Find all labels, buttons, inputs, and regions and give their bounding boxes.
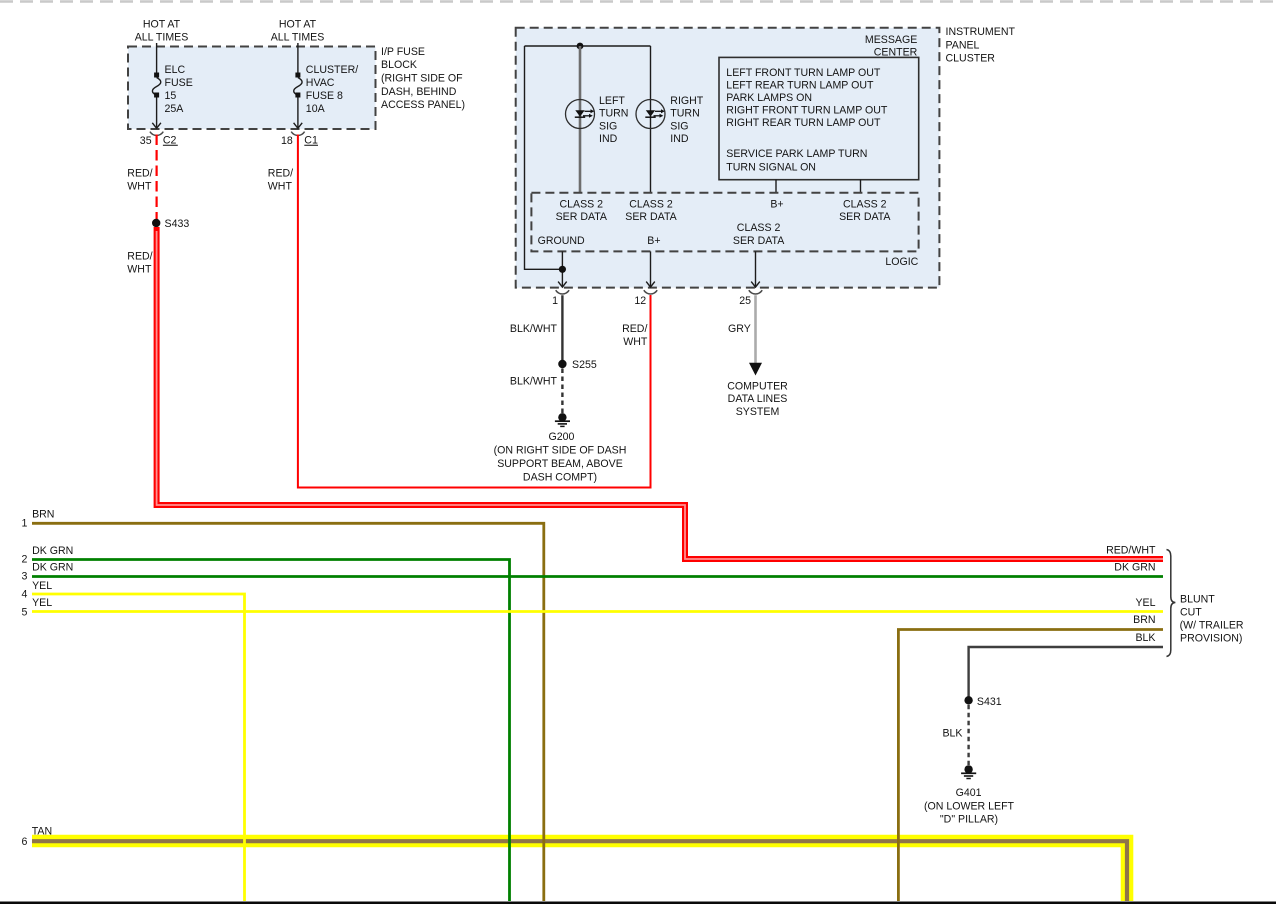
svg-text:CUT: CUT (1180, 606, 1202, 618)
svg-text:5: 5 (21, 607, 27, 619)
svg-text:DASH, BEHIND: DASH, BEHIND (381, 86, 457, 98)
svg-text:YEL: YEL (1135, 597, 1155, 609)
svg-text:ELC: ELC (165, 64, 186, 76)
svg-text:LOGIC: LOGIC (885, 256, 918, 268)
pin label CLASS 2 SER DATA (message center) (839, 198, 891, 223)
label MESSAGE CENTER (865, 34, 918, 58)
svg-text:LEFT REAR TURN LAMP OUT: LEFT REAR TURN LAMP OUT (726, 79, 874, 91)
svg-text:HOT AT: HOT AT (279, 19, 317, 31)
instrument panel cluster box (516, 28, 940, 288)
svg-text:RIGHT FRONT TURN LAMP OUT: RIGHT FRONT TURN LAMP OUT (726, 105, 888, 117)
arrow B+ pin exit (646, 282, 655, 288)
svg-text:B+: B+ (647, 235, 660, 247)
svg-text:S431: S431 (977, 696, 1002, 708)
connector pin 1 (552, 290, 569, 307)
svg-text:2: 2 (21, 553, 27, 565)
svg-text:DATA LINES: DATA LINES (728, 393, 788, 405)
svg-text:(ON LOWER LEFT: (ON LOWER LEFT (924, 800, 1015, 812)
svg-text:DK GRN: DK GRN (32, 562, 73, 574)
wire internal top bus (525, 45, 651, 47)
wire BLK dashed from S431 to G401 (942, 705, 968, 765)
indicator lamp LEFT TURN SIG IND (566, 95, 629, 145)
svg-text:INSTRUMENT: INSTRUMENT (946, 26, 1016, 38)
svg-text:BLK/WHT: BLK/WHT (510, 323, 558, 335)
svg-text:CLUSTER/: CLUSTER/ (306, 64, 358, 76)
svg-text:CLUSTER: CLUSTER (946, 53, 996, 65)
svg-text:B+: B+ (770, 198, 783, 210)
wire BLK/WHT dashed from S255 to G200 (510, 369, 562, 414)
svg-text:BLUNT: BLUNT (1180, 593, 1215, 605)
splice S255 (558, 359, 597, 371)
svg-text:DASH COMPT): DASH COMPT) (523, 472, 597, 484)
pin label CLASS 2 SER DATA (left indicator) (556, 198, 608, 223)
svg-text:RED/: RED/ (127, 168, 152, 180)
arrow out of fuse block (CLUSTER/HVAC) (294, 123, 303, 129)
wire battery feed into CLUSTER/HVAC fuse (297, 43, 299, 73)
svg-text:25A: 25A (165, 103, 185, 115)
svg-text:RIGHT REAR TURN LAMP OUT: RIGHT REAR TURN LAMP OUT (726, 117, 881, 129)
connector pin 25 (739, 290, 762, 307)
svg-text:(ON RIGHT SIDE OF DASH: (ON RIGHT SIDE OF DASH (494, 445, 627, 457)
svg-text:SIG: SIG (670, 120, 688, 132)
svg-text:GRY: GRY (728, 323, 751, 335)
svg-text:S255: S255 (572, 359, 597, 371)
indicator lamp RIGHT TURN SIG IND (636, 95, 704, 145)
svg-text:HOT AT: HOT AT (143, 19, 181, 31)
svg-text:IND: IND (670, 133, 689, 145)
svg-text:RED/: RED/ (127, 251, 152, 263)
svg-text:CLASS 2: CLASS 2 (843, 198, 887, 210)
svg-text:BLOCK: BLOCK (381, 59, 417, 71)
pin label CLASS 2 SER DATA (right indicator) (625, 198, 677, 223)
arrow to computer data lines system (749, 363, 762, 376)
svg-text:TAN: TAN (32, 825, 52, 837)
wire DK GRN row 3 to blunt cut (21, 562, 1163, 583)
svg-text:BRN: BRN (1133, 614, 1155, 626)
splice S433 (152, 218, 189, 230)
svg-text:G200: G200 (549, 431, 575, 443)
wire RED/WHT thick from S433 to blunt cut (127, 227, 1163, 559)
svg-text:DK GRN: DK GRN (1114, 562, 1155, 574)
svg-text:35: 35 (140, 135, 152, 147)
label I/P FUSE BLOCK location (381, 46, 465, 111)
pin label CLASS 2 SER DATA (pin 25) (733, 222, 785, 247)
svg-text:25: 25 (739, 295, 751, 307)
svg-text:1: 1 (21, 517, 27, 529)
wire BLK/WHT from pin 1 to S255 (510, 295, 562, 360)
svg-text:PROVISION): PROVISION) (1180, 633, 1242, 645)
svg-text:RED/: RED/ (268, 168, 293, 180)
wire BLK to blunt cut (right) (969, 647, 1163, 697)
svg-text:6: 6 (21, 836, 27, 848)
svg-text:YEL: YEL (32, 597, 52, 609)
wire message center B+ stub (775, 180, 777, 193)
svg-text:FUSE: FUSE (165, 77, 193, 89)
svg-text:SYSTEM: SYSTEM (736, 406, 780, 418)
label HOT AT ALL TIMES (right feed) (271, 19, 325, 44)
svg-text:15: 15 (165, 90, 177, 102)
svg-text:YEL: YEL (32, 580, 52, 592)
node ground junction (559, 266, 566, 273)
wire left turn indicator feed (579, 46, 582, 193)
svg-text:CLASS 2: CLASS 2 (560, 198, 604, 210)
svg-text:SER DATA: SER DATA (556, 211, 608, 223)
label HOT AT ALL TIMES (left feed) (135, 19, 189, 44)
wire GRY from pin 25 (728, 295, 755, 363)
fuse CLUSTER/HVAC FUSE 8 10A (294, 64, 359, 128)
connector pin 12 (634, 290, 657, 307)
wire RED/WHT dashed from C2 to S433 (127, 135, 156, 220)
connector C1 pin 18 (281, 132, 318, 147)
arrow class 2 ser data pin exit (751, 282, 760, 288)
wire DK GRN row 2 (21, 545, 509, 901)
svg-text:I/P FUSE: I/P FUSE (381, 46, 425, 58)
connector C2 pin 35 (140, 132, 178, 147)
svg-text:WHT: WHT (623, 336, 648, 348)
svg-text:ALL TIMES: ALL TIMES (135, 31, 189, 43)
svg-text:SER DATA: SER DATA (733, 235, 785, 247)
svg-text:COMPUTER: COMPUTER (727, 380, 788, 392)
wire right turn indicator feed (650, 46, 652, 193)
svg-text:10A: 10A (306, 103, 326, 115)
svg-text:S433: S433 (165, 218, 190, 230)
svg-text:LEFT FRONT TURN LAMP OUT: LEFT FRONT TURN LAMP OUT (726, 67, 881, 79)
svg-text:18: 18 (281, 135, 293, 147)
ground G401 (924, 765, 1015, 825)
wire class 2 ser data pin internal (755, 251, 757, 287)
svg-text:DK GRN: DK GRN (32, 545, 73, 557)
node junction on top bus (577, 43, 584, 50)
svg-text:TURN SIGNAL ON: TURN SIGNAL ON (726, 161, 816, 173)
svg-text:TURN: TURN (599, 108, 628, 120)
svg-text:CLASS 2: CLASS 2 (629, 198, 673, 210)
svg-text:SUPPORT BEAM, ABOVE: SUPPORT BEAM, ABOVE (497, 458, 623, 470)
svg-text:BLK: BLK (1135, 632, 1155, 644)
splice S431 (964, 696, 1001, 708)
svg-text:IND: IND (599, 133, 618, 145)
wire B+ pin internal (650, 251, 652, 287)
svg-text:TURN: TURN (670, 108, 699, 120)
label INSTRUMENT PANEL CLUSTER (946, 26, 1016, 65)
svg-text:HVAC: HVAC (306, 77, 335, 89)
svg-text:FUSE 8: FUSE 8 (306, 90, 343, 102)
svg-text:4: 4 (21, 589, 27, 601)
svg-text:PARK LAMPS ON: PARK LAMPS ON (726, 92, 812, 104)
wire TAN row 6 (21, 825, 1127, 901)
logic box (531, 193, 918, 268)
wire battery feed into ELC fuse (156, 43, 158, 73)
svg-text:1: 1 (552, 295, 558, 307)
svg-text:G401: G401 (956, 787, 982, 799)
wire BRN row 1 (21, 508, 543, 901)
wire RED/WHT from C1 to cluster pin 12 (268, 135, 651, 488)
svg-text:RIGHT: RIGHT (670, 95, 703, 107)
svg-text:SIG: SIG (599, 120, 617, 132)
ground G200 (494, 413, 627, 484)
svg-text:(W/ TRAILER: (W/ TRAILER (1180, 620, 1244, 632)
wire ground pin internal (561, 251, 563, 287)
svg-text:SER DATA: SER DATA (625, 211, 677, 223)
label COMPUTER DATA LINES SYSTEM (727, 380, 788, 418)
svg-text:12: 12 (634, 295, 646, 307)
svg-text:RED/WHT: RED/WHT (1106, 545, 1156, 557)
svg-text:SERVICE PARK LAMP TURN: SERVICE PARK LAMP TURN (726, 148, 867, 160)
svg-text:SER DATA: SER DATA (839, 211, 891, 223)
svg-text:3: 3 (21, 571, 27, 583)
svg-text:WHT: WHT (127, 264, 152, 276)
message center display box (719, 57, 919, 179)
arrow ground pin exit (558, 282, 567, 288)
svg-text:ALL TIMES: ALL TIMES (271, 31, 325, 43)
svg-text:WHT: WHT (127, 181, 152, 193)
bottom cropped bus bar (0, 902, 1276, 904)
svg-text:C1: C1 (304, 134, 318, 146)
svg-text:CLASS 2: CLASS 2 (737, 222, 781, 234)
svg-text:(RIGHT SIDE OF: (RIGHT SIDE OF (381, 73, 463, 85)
arrow out of fuse block (ELC) (152, 123, 161, 129)
svg-text:"D" PILLAR): "D" PILLAR) (940, 814, 998, 826)
wire YEL row 4 (21, 580, 244, 901)
svg-text:RED/: RED/ (622, 323, 647, 335)
brace blunt cut group (1167, 550, 1176, 657)
wire BRN to blunt cut (right) (898, 630, 1163, 902)
svg-text:MESSAGE: MESSAGE (865, 34, 917, 46)
svg-text:GROUND: GROUND (538, 235, 585, 247)
svg-text:C2: C2 (163, 134, 177, 146)
wire internal left loop down (525, 46, 563, 269)
svg-text:BLK/WHT: BLK/WHT (510, 376, 558, 388)
wire message center ser data stub (860, 180, 862, 193)
I/P fuse block box (128, 47, 376, 130)
svg-text:BLK: BLK (942, 727, 962, 739)
svg-text:ACCESS PANEL): ACCESS PANEL) (381, 99, 465, 111)
svg-text:PANEL: PANEL (946, 39, 980, 51)
svg-text:BRN: BRN (32, 508, 54, 520)
wire YEL row 5 to blunt cut (21, 597, 1163, 619)
fuse ELC FUSE 15 25A (152, 64, 192, 128)
svg-text:LEFT: LEFT (599, 95, 625, 107)
label BLUNT CUT (W/ TRAILER PROVISION) (1180, 593, 1244, 644)
svg-text:WHT: WHT (268, 181, 293, 193)
